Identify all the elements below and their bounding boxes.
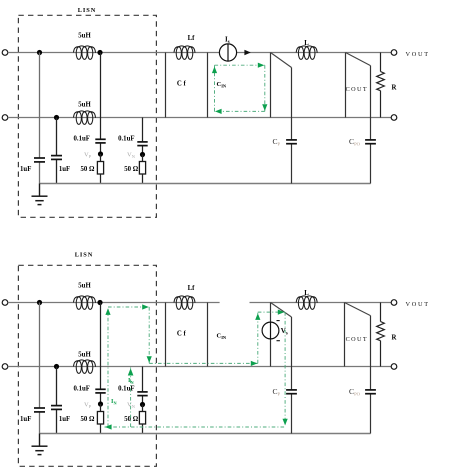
svg-text:C f: C f	[177, 331, 187, 338]
svg-text:R: R	[392, 335, 397, 342]
green CM noise path: LISN loop left vertical	[107, 307, 109, 427]
node: junction dot on P rail after 5uH	[97, 300, 102, 305]
node: junction dot on N rail at 1uF branch	[54, 364, 59, 369]
node: junction dot on N rail at 1uF branch	[54, 115, 59, 120]
inductor 5uH on P rail	[74, 296, 96, 310]
wire: ground bus	[40, 433, 371, 435]
green CM noise path: down through C_P	[284, 312, 286, 426]
svg-text:COUT: COUT	[346, 86, 368, 93]
inductor Lf on P rail	[174, 296, 195, 310]
resistor 50 Ohm (N branch)	[142, 405, 144, 412]
input terminal P (left top)	[2, 50, 8, 56]
svg-text:50 Ω: 50 Ω	[124, 166, 138, 173]
inductor L	[296, 46, 317, 60]
svg-text:50 Ω: 50 Ω	[81, 416, 95, 423]
switch S2 (diagonal)	[346, 53, 371, 66]
inductor 5uH on P rail	[74, 46, 96, 60]
svg-text:Lf: Lf	[188, 35, 196, 42]
svg-text:LISN: LISN	[78, 7, 97, 14]
inductor Lf on P rail	[174, 46, 195, 60]
node V_P junction dot	[98, 401, 103, 406]
wire: bottom rail (N line)	[8, 366, 391, 368]
green CM noise path: along N rail	[149, 362, 258, 364]
svg-text:VOUT: VOUT	[406, 301, 430, 308]
resistor R load	[380, 53, 382, 72]
resistor 50 Ohm (N branch)	[142, 155, 144, 162]
wire: input node vertical (line to line)	[270, 53, 272, 118]
wire: ground bus	[40, 183, 371, 185]
node: junction dot on P rail at 1uF branch	[37, 50, 42, 55]
output terminal VOUT+	[391, 50, 397, 56]
capacitor 1uF (N line to ground)	[56, 118, 58, 156]
svg-text:1uF: 1uF	[59, 166, 70, 173]
node: junction dot on P rail at 1uF branch	[37, 300, 42, 305]
resistor R load	[380, 303, 382, 322]
input terminal N (left bottom)	[2, 364, 8, 370]
wire: top rail (P line)	[8, 52, 220, 54]
green CM noise path: ground return	[105, 426, 286, 428]
svg-text:L: L	[304, 40, 309, 47]
svg-text:C f: C f	[177, 81, 187, 88]
green CM noise path: LISN loop right vertical	[148, 307, 150, 363]
capacitor C_PO (output node to ground)	[370, 66, 372, 140]
resistor 50 Ohm (P branch)	[100, 404, 102, 412]
capacitor C_IN (line to line)	[207, 303, 209, 367]
svg-text:0.1uF: 0.1uF	[73, 386, 89, 393]
svg-text:1uF: 1uF	[20, 166, 31, 173]
capacitor 0.1uF (N measuring branch)	[142, 118, 144, 142]
svg-text:LISN: LISN	[75, 252, 94, 259]
inductor L	[296, 296, 317, 310]
current source Is	[219, 44, 236, 61]
capacitor 1uF (N line to ground)	[56, 367, 58, 406]
svg-text:COUT: COUT	[346, 336, 368, 343]
current direction arrow on rail	[244, 50, 250, 55]
svg-text:1uF: 1uF	[20, 416, 31, 423]
green CM noise path: over source top	[258, 311, 285, 313]
ground symbol	[39, 434, 41, 447]
voltage source Vs	[262, 322, 279, 339]
svg-text:L: L	[304, 290, 309, 297]
capacitor COUT (line to line)	[344, 303, 346, 367]
svg-text:0.1uF: 0.1uF	[118, 386, 134, 393]
inductor 5uH on N rail	[74, 360, 96, 374]
capacitor COUT (line to line)	[345, 53, 347, 118]
output terminal VOUT+	[391, 300, 397, 306]
node: junction dot on P rail after 5uH	[97, 50, 102, 55]
inductor 5uH on N rail	[74, 111, 96, 125]
capacitor C_P (phase node to ground)	[291, 317, 293, 389]
capacitor Cf (line to line)	[165, 53, 167, 118]
polarity mark bottom	[277, 340, 280, 342]
capacitor 0.1uF (P measuring branch)	[100, 53, 102, 139]
switch S1 (diagonal)	[271, 303, 292, 318]
capacitor 1uF (P line to ground)	[39, 303, 41, 408]
input terminal P (left top)	[2, 300, 8, 306]
svg-text:0.1uF: 0.1uF	[73, 136, 89, 143]
svg-text:5uH: 5uH	[78, 352, 91, 359]
wire: top rail (P line)	[8, 302, 220, 304]
svg-text:Lf: Lf	[188, 285, 196, 292]
switch S2 (diagonal)	[345, 303, 371, 316]
wire: bottom rail (N line)	[8, 117, 391, 119]
resistor 50 Ohm (P branch)	[100, 154, 102, 162]
svg-text:1uF: 1uF	[59, 416, 70, 423]
output terminal VOUT-	[391, 364, 397, 370]
svg-text:R: R	[392, 85, 397, 92]
switch S1 (diagonal)	[271, 53, 292, 68]
ground symbol	[39, 184, 41, 197]
output terminal VOUT-	[391, 115, 397, 121]
svg-text:5uH: 5uH	[78, 283, 91, 290]
svg-text:VOUT: VOUT	[406, 51, 430, 58]
green CM noise path: up into source	[257, 312, 259, 363]
green measured-current branch with I_N	[130, 368, 132, 428]
LISN enclosure dashed box (bottom circuit)	[18, 265, 156, 466]
input terminal N (left bottom)	[2, 115, 8, 121]
LISN enclosure dashed box (top circuit)	[18, 15, 156, 217]
green noise-current loop (dash-dot)	[215, 64, 265, 66]
node V_N junction dot	[140, 152, 145, 157]
node V_P junction dot	[98, 151, 103, 156]
wire: source branch vertical	[270, 303, 272, 367]
svg-text:0.1uF: 0.1uF	[118, 136, 134, 143]
capacitor 0.1uF (N measuring branch)	[142, 367, 144, 392]
svg-text:50 Ω: 50 Ω	[124, 416, 138, 423]
svg-text:50 Ω: 50 Ω	[81, 166, 95, 173]
capacitor C_P (phase node to ground)	[291, 68, 293, 140]
node V_N junction dot	[140, 402, 145, 407]
capacitor Cf (line to line)	[165, 303, 167, 367]
capacitor 1uF (P line to ground)	[39, 53, 41, 158]
green CM noise path: LISN loop top horizontal	[108, 306, 149, 308]
svg-text:5uH: 5uH	[78, 33, 91, 40]
capacitor 0.1uF (P measuring branch)	[100, 303, 102, 389]
polarity mark top	[277, 320, 280, 322]
capacitor C_PO (output node to ground)	[370, 316, 372, 390]
svg-text:5uH: 5uH	[78, 102, 91, 109]
capacitor C_IN (line to line)	[207, 53, 209, 118]
